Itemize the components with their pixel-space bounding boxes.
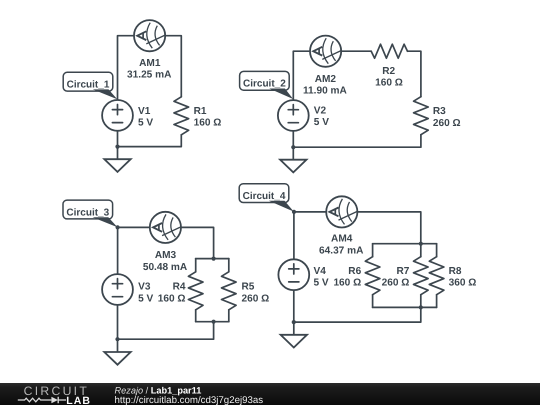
wire: parallel top bar R4-R5: [196, 258, 229, 260]
resistor R1: [174, 97, 189, 135]
svg-text:360 Ω: 360 Ω: [449, 278, 477, 289]
voltage source V3: [102, 274, 133, 305]
svg-text:31.25 mA: 31.25 mA: [127, 70, 172, 81]
resistor R3: [414, 97, 429, 135]
wire: AM3 right to parallel top bar: [181, 227, 214, 258]
wire: parallel top bar R6-R8: [373, 243, 437, 245]
svg-text:Rezajo / Lab1_par11: Rezajo / Lab1_par11: [115, 386, 202, 396]
svg-text:160 Ω: 160 Ω: [194, 118, 222, 129]
resistor R2: [371, 44, 407, 58]
wire: V1 bottom lead: [117, 131, 119, 147]
wire: bottom of circuit 3: [118, 322, 214, 340]
wire: V3 bottom lead: [117, 305, 119, 339]
svg-text:11.90 mA: 11.90 mA: [303, 86, 347, 97]
wire: R2 right to R3 top: [408, 51, 421, 96]
svg-text:AM4: AM4: [331, 233, 353, 244]
svg-text:R6: R6: [348, 266, 361, 277]
ground circuit 1: [104, 147, 130, 172]
svg-text:http://circuitlab.com/cd3j7g2e: http://circuitlab.com/cd3j7g2ej93as: [115, 395, 264, 405]
svg-text:V1: V1: [138, 106, 151, 117]
ammeter AM3: [150, 212, 182, 243]
resistor R4: [188, 259, 203, 322]
svg-text:260 Ω: 260 Ω: [382, 278, 410, 289]
svg-text:160 Ω: 160 Ω: [375, 78, 403, 89]
resistor R8: [429, 244, 444, 308]
svg-text:V2: V2: [314, 106, 327, 117]
junction node circuit 2: [291, 145, 295, 149]
svg-text:Circuit_1: Circuit_1: [67, 80, 110, 91]
wire: V1 top to AM1 left: [118, 36, 135, 100]
ammeter AM4: [326, 196, 358, 227]
svg-text:AM1: AM1: [139, 58, 161, 69]
svg-text:5 V: 5 V: [314, 117, 329, 128]
svg-text:260 Ω: 260 Ω: [433, 118, 461, 129]
svg-text:R4: R4: [173, 282, 186, 293]
junction node top bar c3: [212, 257, 216, 261]
wire: AM2 right to R2 left: [341, 50, 371, 52]
junction node bottom bar c4: [419, 305, 423, 309]
svg-text:Circuit_3: Circuit_3: [66, 207, 109, 218]
node label Circuit_1 callout: [63, 72, 117, 99]
svg-text:R7: R7: [396, 266, 409, 277]
svg-text:LAB: LAB: [66, 395, 91, 405]
ammeter AM1: [134, 20, 166, 51]
wire: V2 top to AM2 left: [293, 51, 310, 100]
svg-text:160 Ω: 160 Ω: [158, 293, 186, 304]
wire: bottom of circuit 4: [294, 307, 421, 322]
resistor R5: [222, 259, 237, 322]
ground circuit 2: [280, 147, 306, 172]
voltage source V1: [102, 100, 133, 131]
resistor R7: [414, 244, 429, 308]
ground circuit 3: [104, 339, 130, 365]
node label Circuit_4 callout: [239, 184, 294, 212]
svg-text:R8: R8: [449, 266, 462, 277]
ammeter AM2: [310, 36, 342, 67]
svg-text:R3: R3: [433, 106, 446, 117]
wire: AM1 right to R1 top: [165, 36, 181, 97]
svg-text:Circuit_2: Circuit_2: [243, 79, 286, 90]
junction node bottom bar c3: [212, 320, 216, 324]
svg-text:5 V: 5 V: [314, 278, 329, 289]
svg-text:260 Ω: 260 Ω: [242, 293, 270, 304]
junction node top bar c4: [419, 242, 423, 246]
node label Circuit_3 callout: [63, 200, 118, 227]
wire: bottom of circuit 2: [293, 135, 421, 148]
svg-text:50.48 mA: 50.48 mA: [143, 262, 188, 273]
svg-text:V3: V3: [138, 282, 151, 293]
logo diode: [51, 397, 58, 403]
svg-text:V4: V4: [314, 266, 327, 277]
voltage source V2: [278, 100, 309, 131]
wire: top node to AM3 left: [118, 226, 150, 228]
svg-text:5 V: 5 V: [138, 293, 153, 304]
wire: AM4 right to parallel top bar: [357, 212, 420, 244]
node label Circuit_2 callout: [240, 71, 294, 99]
junction node bottom-left c3: [115, 337, 119, 341]
junction node top-left c3: [116, 225, 120, 229]
wire: top node to AM4 left: [294, 211, 326, 213]
svg-text:AM3: AM3: [155, 250, 177, 261]
wire: parallel bottom bar R6-R8: [373, 306, 437, 308]
junction node circuit 1: [115, 145, 119, 149]
wire: V2 bottom lead: [292, 131, 294, 147]
wire: V4 top lead from node: [293, 212, 295, 259]
svg-text:Circuit_4: Circuit_4: [243, 191, 286, 202]
svg-text:5 V: 5 V: [138, 118, 153, 129]
svg-text:R1: R1: [194, 106, 207, 117]
wire: parallel bottom bar R4-R5: [196, 321, 229, 323]
resistor R6: [365, 244, 380, 308]
junction node top-left c4: [292, 210, 296, 214]
voltage source V4: [278, 259, 309, 290]
svg-text:AM2: AM2: [315, 74, 337, 85]
wire: V4 bottom lead: [293, 290, 295, 322]
wire: bottom of circuit 1: [118, 135, 182, 147]
svg-text:160 Ω: 160 Ω: [333, 278, 361, 289]
svg-text:64.37 mA: 64.37 mA: [319, 246, 364, 257]
svg-text:R2: R2: [382, 66, 395, 77]
junction node bottom-left c4: [292, 320, 296, 324]
svg-text:R5: R5: [242, 282, 255, 293]
wire: V3 top lead from node: [117, 227, 119, 274]
ground circuit 4: [281, 322, 307, 347]
logo resistor zigzag: [18, 398, 52, 402]
